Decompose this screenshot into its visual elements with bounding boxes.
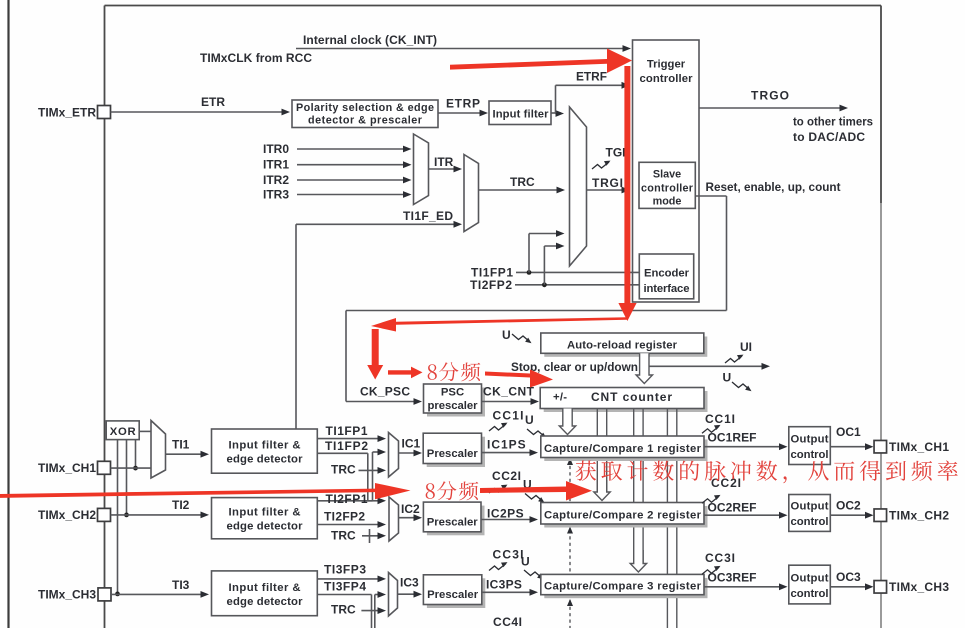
svg-text:TI3FP3: TI3FP3 <box>324 563 366 577</box>
wire OC1REF <box>704 446 785 448</box>
svg-text:ETR: ETR <box>201 95 225 109</box>
pad TIMx_CH2 <box>874 509 887 522</box>
wire TI3FP4 <box>317 594 371 596</box>
wire XOR out <box>139 430 151 432</box>
svg-text:TI3: TI3 <box>172 578 190 592</box>
svg-text:Output: Output <box>791 501 829 513</box>
red arrow to trigger controller <box>450 49 632 74</box>
wire TRC2 tick <box>369 529 371 543</box>
svg-text:U: U <box>723 371 732 385</box>
event CC3I zigzag 3 <box>489 564 506 571</box>
svg-text:Prescaler: Prescaler <box>427 517 479 529</box>
pad TIMx_CH2 <box>98 508 111 521</box>
block input filter edge detector 1 <box>212 429 318 473</box>
svg-text:ITR2: ITR2 <box>263 173 289 187</box>
block capture compare 2 register <box>544 506 707 528</box>
wire slave feedback <box>695 195 726 197</box>
svg-text:IC1PS: IC1PS <box>487 438 527 452</box>
wire TI1FP1 <box>317 438 383 440</box>
svg-text:Output: Output <box>791 433 829 445</box>
block capture compare 3 register <box>544 578 707 598</box>
bus shaft 4 <box>666 409 668 628</box>
block polarity selection <box>292 100 438 128</box>
wire OC1 <box>830 446 870 448</box>
wire TI3 <box>111 593 206 595</box>
svg-text:interface: interface <box>644 283 690 295</box>
block output control 1 <box>789 427 831 465</box>
wire TI1FP2 down arrow <box>368 500 383 502</box>
page left rule <box>7 0 9 628</box>
wire ITR3 <box>297 194 408 196</box>
event U zigzag dn <box>732 382 750 390</box>
svg-text:U: U <box>502 328 511 342</box>
wire TI4 up <box>374 595 376 628</box>
wire TI1FP1 enc <box>516 271 639 273</box>
svg-text:Internal clock (CK_INT): Internal clock (CK_INT) <box>303 33 437 47</box>
svg-text:ETRF: ETRF <box>576 70 607 84</box>
event CC2I zigzag 2 <box>489 486 506 493</box>
frame left border <box>104 6 106 628</box>
svg-text:OC1: OC1 <box>836 425 861 439</box>
red arrow down to CK_PSC <box>367 329 383 380</box>
svg-text:edge detector: edge detector <box>227 521 304 533</box>
svg-text:Prescaler: Prescaler <box>427 589 479 601</box>
svg-text:Prescaler: Prescaler <box>427 448 479 460</box>
svg-text:TGI: TGI <box>606 146 626 160</box>
wire TI2FP2 <box>317 524 383 526</box>
wire TRGO <box>699 107 845 109</box>
wire XOR in1 <box>117 440 119 594</box>
svg-text:CC1I: CC1I <box>493 409 524 423</box>
wire OC2REF <box>704 514 785 516</box>
svg-text:TIMx_ETR: TIMx_ETR <box>38 106 96 120</box>
wire TI1 <box>166 453 207 455</box>
frame right border lower <box>880 203 882 628</box>
svg-text:+/-: +/- <box>553 392 567 404</box>
wire OC3 <box>830 586 870 588</box>
wire TRC1 <box>359 469 384 471</box>
svg-text:Input filter &: Input filter & <box>229 582 301 594</box>
svg-text:Trigger: Trigger <box>647 59 686 71</box>
svg-text:TIMx_CH3: TIMx_CH3 <box>38 588 96 602</box>
event CC1I zigzag 1 <box>489 424 506 431</box>
event CC2I zigzag <box>702 496 719 503</box>
wire IC3 <box>398 593 420 595</box>
red arrow to PSC text <box>388 367 423 379</box>
svg-text:TRC: TRC <box>510 175 535 189</box>
pad TIMx_CH3 <box>874 581 887 594</box>
svg-text:control: control <box>791 449 829 461</box>
wire TI1FP2 <box>317 452 367 454</box>
block input filter edge detector 2 <box>212 498 318 539</box>
svg-text:IC3: IC3 <box>400 576 419 590</box>
red arrow left to CK_PSC <box>371 317 627 331</box>
wire UI out <box>649 365 767 367</box>
svg-text:TI1FP2: TI1FP2 <box>325 439 368 453</box>
svg-text:TIMx_CH1: TIMx_CH1 <box>38 461 96 475</box>
block input filter edge detector 3 <box>212 571 318 616</box>
svg-text:OC1REF: OC1REF <box>708 431 757 445</box>
svg-text:TI1: TI1 <box>172 438 190 452</box>
svg-text:IC2PS: IC2PS <box>487 507 524 521</box>
svg-text:CC1I: CC1I <box>705 412 735 426</box>
svg-text:controller: controller <box>640 73 694 85</box>
svg-text:TI2FP1: TI2FP1 <box>326 492 368 506</box>
svg-text:OC3: OC3 <box>836 570 861 584</box>
block XOR <box>106 421 139 440</box>
svg-text:CK_PSC: CK_PSC <box>360 385 410 399</box>
svg-text:TRGI: TRGI <box>592 176 623 190</box>
mux TI1 select <box>151 421 166 479</box>
block slave controller mode <box>639 162 695 208</box>
red text 8fenpin 1 <box>428 364 437 380</box>
wire ITR out <box>429 168 460 170</box>
block CNT counter <box>544 391 708 412</box>
mux IC3 <box>389 573 398 617</box>
svg-text:OC3REF: OC3REF <box>708 571 757 585</box>
pad TIMx_CH1 <box>98 461 111 474</box>
wire XOR in2 <box>126 440 128 515</box>
mux IC1 <box>389 433 399 478</box>
svg-text:TI3FP4: TI3FP4 <box>324 580 366 594</box>
arrow into CC2 <box>594 480 610 501</box>
block capture compare 1 register <box>544 440 707 462</box>
svg-text:TI1F_ED: TI1F_ED <box>403 209 453 223</box>
wire TI2FP2 enc <box>515 284 639 286</box>
svg-text:CK_CNT: CK_CNT <box>483 385 535 399</box>
event U zigzag 2 <box>525 494 543 502</box>
svg-text:TIMx_CH3: TIMx_CH3 <box>889 580 949 594</box>
svg-text:to DAC/ADC: to DAC/ADC <box>793 130 865 144</box>
svg-text:CC2I: CC2I <box>492 469 521 483</box>
svg-text:TI2FP2: TI2FP2 <box>470 278 512 292</box>
svg-text:control: control <box>791 588 829 600</box>
red arrow down trigger path <box>618 66 636 321</box>
wire CK_CNT <box>482 401 537 403</box>
frame top border <box>105 5 882 7</box>
svg-text:prescaler: prescaler <box>428 400 479 412</box>
svg-text:XOR: XOR <box>110 426 136 438</box>
block input filter <box>489 101 551 125</box>
wire ITR0 <box>297 148 408 150</box>
svg-text:ITR0: ITR0 <box>263 142 289 156</box>
wire XOR in3 <box>135 440 137 469</box>
wire TI2 <box>111 514 207 516</box>
wire ETRF branch <box>555 85 557 113</box>
svg-text:control: control <box>791 516 829 528</box>
block output control 3 <box>789 565 831 604</box>
svg-text:U: U <box>521 555 530 569</box>
svg-text:ITR1: ITR1 <box>263 158 289 172</box>
svg-text:ITR3: ITR3 <box>263 188 289 202</box>
event UI zigzag <box>725 356 742 363</box>
wire TI1F_ED horizontal <box>296 223 459 225</box>
svg-text:Capture/Compare 1 register: Capture/Compare 1 register <box>544 443 702 455</box>
svg-text:detector & prescaler: detector & prescaler <box>308 115 423 127</box>
svg-text:ETRP: ETRP <box>446 97 480 111</box>
svg-text:OC2REF: OC2REF <box>708 501 757 515</box>
wire TI3FP3 <box>317 578 383 580</box>
wire OC2 <box>830 514 870 516</box>
svg-text:Input filter &: Input filter & <box>229 507 301 519</box>
mux ITR select <box>414 134 429 205</box>
svg-text:TRC: TRC <box>331 603 356 617</box>
svg-text:U: U <box>525 413 534 427</box>
event U zigzag 3 <box>524 570 542 578</box>
svg-text:UI: UI <box>740 340 752 354</box>
mux trigger input select <box>570 107 587 266</box>
pad TIMx_ETR <box>98 106 111 119</box>
arrow into CC1 <box>559 409 575 435</box>
wire ETRP <box>438 112 485 114</box>
svg-text:edge detector: edge detector <box>227 596 304 608</box>
wire IC1PS <box>482 452 536 454</box>
svg-text:TRGO: TRGO <box>751 89 789 103</box>
wire CH1 to mux <box>111 467 152 469</box>
svg-text:Output: Output <box>791 572 829 584</box>
svg-text:TI1FP1: TI1FP1 <box>326 424 368 438</box>
svg-text:IC1: IC1 <box>402 437 421 451</box>
block auto-reload register <box>544 337 707 357</box>
svg-text:Capture/Compare 3 register: Capture/Compare 3 register <box>544 580 702 592</box>
svg-text:TI2: TI2 <box>172 498 190 512</box>
wire IC1 <box>399 452 420 454</box>
svg-text:OC2: OC2 <box>836 499 861 513</box>
svg-text:CC4I: CC4I <box>493 615 522 628</box>
svg-text:Auto-reload register: Auto-reload register <box>567 340 678 352</box>
svg-text:TIMx_CH2: TIMx_CH2 <box>38 508 96 522</box>
event CC1I zigzag <box>702 426 719 433</box>
red text huoqu jishu <box>576 460 958 483</box>
event U zigzag 1 <box>527 429 545 437</box>
svg-text:IC3PS: IC3PS <box>486 578 522 592</box>
svg-text:to other timers: to other timers <box>793 115 873 129</box>
svg-text:TIMxCLK from RCC: TIMxCLK from RCC <box>200 51 312 65</box>
dashed capture feedback <box>569 460 571 628</box>
svg-text:IC2: IC2 <box>401 502 420 516</box>
svg-text:ITR: ITR <box>434 155 454 169</box>
svg-text:CC3I: CC3I <box>493 548 524 562</box>
mux TRC select <box>464 155 479 232</box>
event CC3I zigzag <box>702 567 719 574</box>
svg-text:TI2FP2: TI2FP2 <box>324 510 365 524</box>
svg-text:Input filter: Input filter <box>493 109 550 121</box>
svg-text:PSC: PSC <box>441 387 464 399</box>
wire ITR2 <box>297 179 408 181</box>
svg-text:Polarity selection & edge: Polarity selection & edge <box>296 102 434 114</box>
svg-text:controller: controller <box>641 183 694 195</box>
wire CK_PSC <box>346 401 419 403</box>
wire ITR1 <box>297 164 408 166</box>
wire TRC <box>479 189 563 191</box>
block prescaler 3 <box>427 578 485 608</box>
mux IC2 <box>389 497 399 541</box>
svg-text:Slave: Slave <box>653 169 681 181</box>
block PSC prescaler <box>427 388 485 417</box>
svg-text:TRC: TRC <box>331 529 356 543</box>
svg-text:Input filter &: Input filter & <box>229 440 301 452</box>
wire IC2 <box>399 517 420 519</box>
wire TRC3 <box>361 610 383 612</box>
red long arrow left band <box>0 483 411 499</box>
svg-text:Reset, enable, up, count: Reset, enable, up, count <box>706 180 841 194</box>
frame right border upper <box>880 6 882 204</box>
wire input filter to mux <box>551 112 561 114</box>
red arrow to CNT <box>485 370 553 388</box>
svg-text:CC2I: CC2I <box>711 476 741 490</box>
wire TRGI <box>587 189 628 191</box>
bus shaft 3 <box>633 409 635 564</box>
block prescaler 2 <box>427 506 485 536</box>
wire TI2FP1 up <box>372 452 374 501</box>
wire TI1F_ED vertical <box>295 224 297 429</box>
wire TRC2 <box>362 535 383 537</box>
wire CK_INT <box>296 48 628 50</box>
pad TIMx_CH3 <box>98 588 111 601</box>
arrow into CC3 <box>630 550 646 572</box>
wire IC2PS <box>481 519 535 521</box>
block output control 2 <box>789 495 831 532</box>
wire IC3PS <box>482 591 535 593</box>
pad TIMx_CH1 <box>874 440 887 453</box>
wire TI2FP1 <box>317 500 372 502</box>
svg-text:CNT counter: CNT counter <box>591 390 672 404</box>
arrow ARR to CNT <box>636 353 652 383</box>
red arrow to CC2 register <box>480 481 592 501</box>
svg-text:TRC: TRC <box>331 463 356 477</box>
bus shaft 2 <box>596 409 598 493</box>
svg-text:CC3I: CC3I <box>705 551 735 565</box>
svg-text:Capture/Compare 2 register: Capture/Compare 2 register <box>544 510 702 522</box>
event TGI zigzag <box>592 162 609 169</box>
svg-text:TIMx_CH1: TIMx_CH1 <box>889 440 949 454</box>
wire ETR <box>111 111 288 113</box>
block prescaler 1 <box>427 437 485 467</box>
red text 8fenpin 2 <box>426 483 435 499</box>
svg-text:Encoder: Encoder <box>644 268 690 280</box>
svg-text:TIMx_CH2: TIMx_CH2 <box>889 508 949 522</box>
svg-text:edge detector: edge detector <box>227 454 304 466</box>
svg-text:mode: mode <box>653 196 682 208</box>
block encoder interface <box>639 254 693 299</box>
wire OC3REF <box>704 586 785 588</box>
block trigger controller <box>633 40 700 302</box>
